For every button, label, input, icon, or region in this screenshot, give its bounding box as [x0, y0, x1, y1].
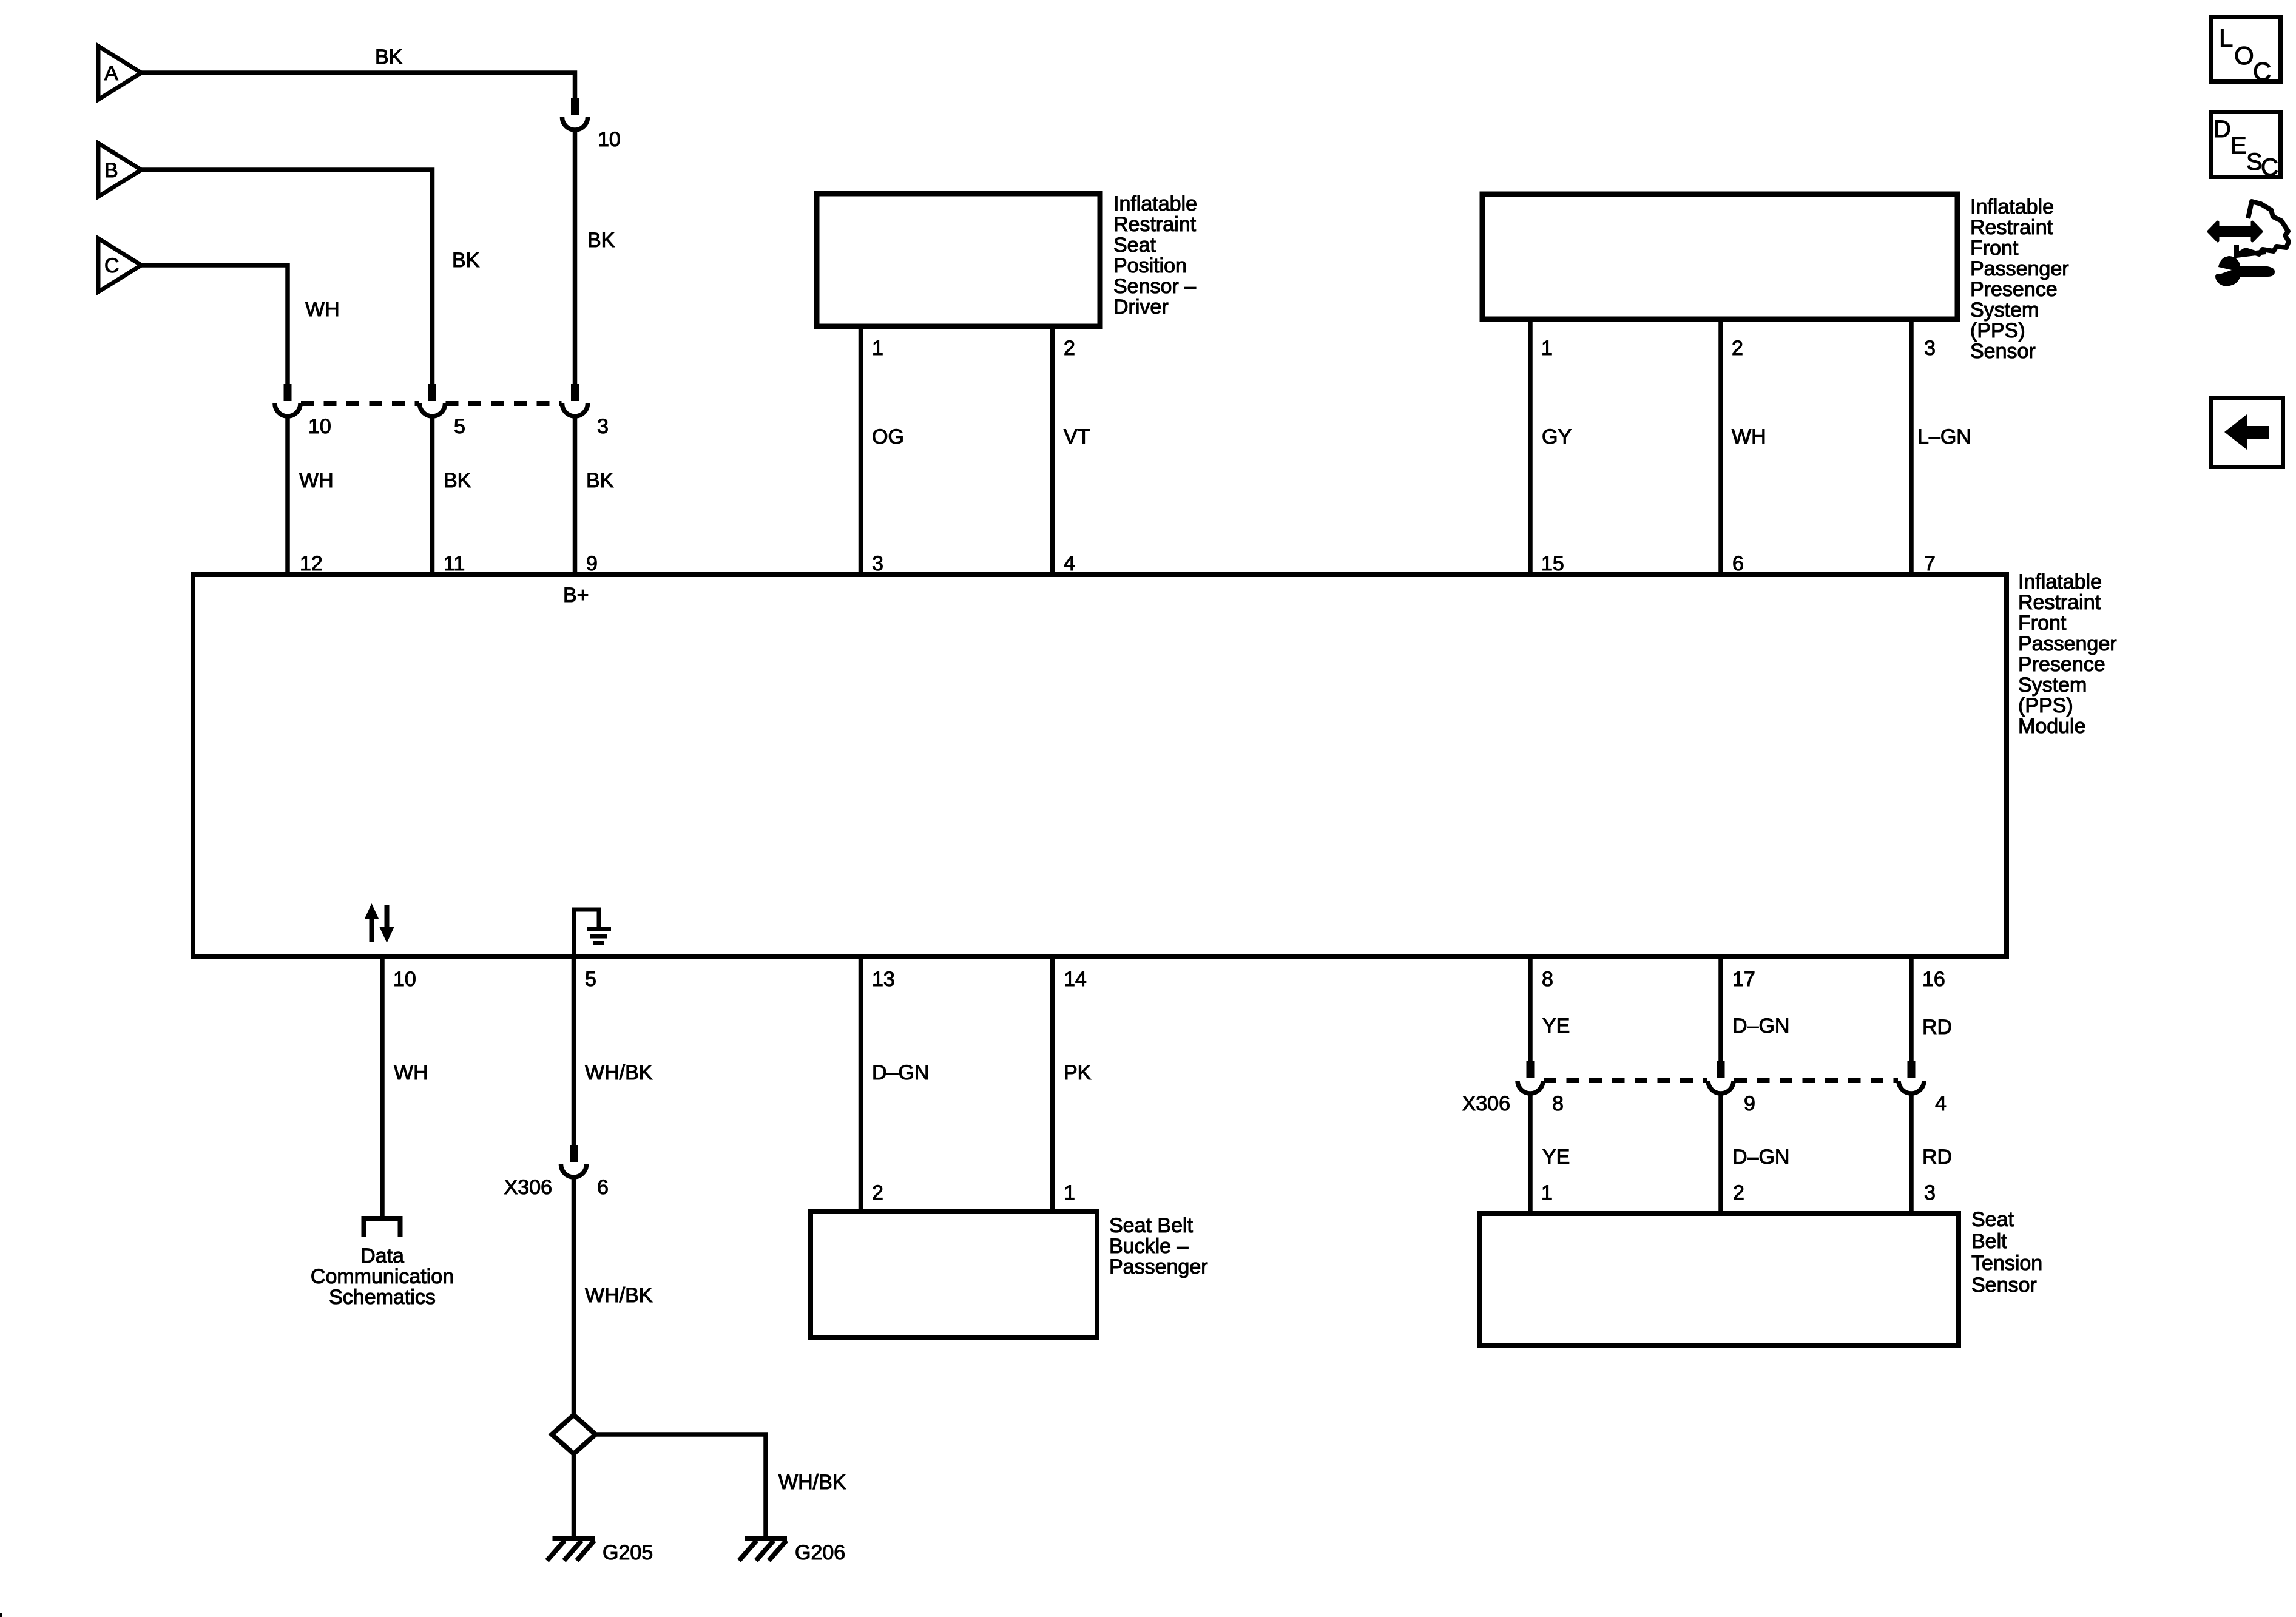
wire PPS pin1 GY	[1528, 319, 1533, 575]
svg-text:2: 2	[1064, 337, 1075, 360]
connector splice row pin 3	[562, 384, 588, 416]
svg-text:11: 11	[444, 552, 465, 575]
splice diamond S-junction	[552, 1415, 596, 1454]
box: Inflatable Restraint Front Passenger Presence System (PPS) Sensor	[1482, 194, 1957, 319]
svg-text:WH: WH	[1732, 425, 1766, 448]
page corner mark	[0, 1613, 2, 1617]
svg-text:3: 3	[597, 415, 609, 438]
connector X306 pin 4	[1899, 1061, 1924, 1093]
wire module pin10 WH	[380, 957, 385, 1217]
svg-text:3: 3	[1924, 1181, 1936, 1204]
wire YE to tension 1	[1528, 1093, 1533, 1214]
wire module pin5 WH/BK upper	[572, 957, 576, 1146]
svg-text:X306: X306	[504, 1176, 552, 1199]
wire sensor pin2 VT	[1050, 329, 1055, 575]
svg-text:B: B	[104, 159, 118, 182]
svg-text:C: C	[2261, 154, 2278, 181]
svg-text:8: 8	[1542, 968, 1553, 991]
wire splice to G205	[572, 1454, 576, 1538]
wire BK to module pin 9	[573, 416, 578, 575]
svg-text:A: A	[104, 62, 118, 85]
svg-text:10: 10	[308, 415, 331, 438]
connector arrow A	[98, 46, 141, 100]
svg-text:WH: WH	[394, 1061, 428, 1084]
svg-text:6: 6	[597, 1176, 609, 1199]
svg-text:O: O	[2234, 41, 2254, 70]
wire D-GN to tension 2	[1718, 1093, 1723, 1214]
svg-text:13: 13	[872, 968, 895, 991]
ground G206	[739, 1538, 787, 1561]
svg-text:1: 1	[1064, 1181, 1075, 1204]
chassis ground symbol (module pin 5)	[574, 910, 612, 956]
svg-text:5: 5	[454, 415, 465, 438]
connector X306 pin 6	[561, 1145, 587, 1177]
box: Seat Belt Buckle - Passenger	[811, 1211, 1097, 1337]
svg-text:16: 16	[1922, 968, 1945, 991]
svg-text:5: 5	[585, 968, 596, 991]
data link connector (to other schematics)	[364, 1218, 400, 1237]
icon DESC button	[2211, 112, 2281, 181]
svg-text:14: 14	[1064, 968, 1087, 991]
svg-text:C: C	[2253, 57, 2271, 86]
wire WH/BK to splice	[572, 1177, 576, 1416]
wire sensor pin1 OG	[859, 329, 863, 575]
svg-text:WH: WH	[305, 298, 340, 321]
box: Seat Belt Tension Sensor	[1480, 1214, 1959, 1346]
svg-text:15: 15	[1541, 552, 1564, 575]
wire module pin8 YE	[1528, 957, 1533, 1062]
box: Inflatable Restraint Seat Position Sensor - Driver	[817, 194, 1100, 326]
dashed jumper X306 row	[1544, 1078, 1898, 1083]
svg-text:WH/BK: WH/BK	[585, 1061, 653, 1084]
svg-text:RD: RD	[1922, 1146, 1952, 1169]
svg-text:InflatableRestraintFrontPassen: InflatableRestraintFrontPassengerPresenc…	[2018, 570, 2117, 738]
svg-text:BK: BK	[587, 229, 615, 252]
svg-text:6: 6	[1732, 552, 1744, 575]
svg-text:1: 1	[1541, 1181, 1553, 1204]
wire C WH horizontal+down	[141, 265, 288, 384]
svg-text:YE: YE	[1542, 1146, 1570, 1169]
connector arrow B	[98, 143, 141, 197]
svg-text:S: S	[2246, 149, 2263, 175]
connector inline 10 on wire A	[562, 98, 588, 130]
wire module pin14 PK	[1050, 957, 1055, 1212]
svg-text:2: 2	[1732, 337, 1743, 360]
ground G205	[547, 1538, 595, 1561]
svg-text:10: 10	[393, 968, 416, 991]
icon back-arrow button	[2211, 399, 2283, 467]
connector X306 pin 9	[1708, 1061, 1734, 1093]
svg-text:L–GN: L–GN	[1917, 425, 1971, 448]
svg-text:RD: RD	[1922, 1016, 1952, 1039]
svg-text:BK: BK	[452, 249, 480, 272]
svg-text:E: E	[2230, 132, 2247, 159]
svg-text:2: 2	[872, 1181, 883, 1204]
svg-text:L: L	[2219, 24, 2233, 52]
svg-text:SeatBeltTensionSensor: SeatBeltTensionSensor	[1971, 1208, 2042, 1297]
svg-text:9: 9	[1744, 1092, 1755, 1115]
svg-text:4: 4	[1064, 552, 1075, 575]
svg-text:WH/BK: WH/BK	[585, 1284, 653, 1307]
svg-text:D: D	[2213, 116, 2231, 143]
wire WH to module pin 12	[285, 416, 290, 575]
svg-text:PK: PK	[1064, 1061, 1092, 1084]
svg-text:X306: X306	[1462, 1092, 1510, 1115]
svg-text:3: 3	[872, 552, 883, 575]
connector X306 pin 8	[1518, 1061, 1543, 1093]
bidirectional data arrows (module pin 10)	[365, 903, 394, 943]
svg-text:B+: B+	[563, 584, 589, 607]
svg-text:InflatableRestraintFrontPassen: InflatableRestraintFrontPassengerPresenc…	[1970, 195, 2069, 363]
svg-text:D–GN: D–GN	[1732, 1146, 1789, 1169]
svg-text:G206: G206	[795, 1541, 845, 1564]
wire module pin17 D-GN	[1718, 957, 1723, 1062]
wire PPS pin2 WH	[1718, 319, 1723, 575]
svg-text:17: 17	[1732, 968, 1755, 991]
svg-text:BK: BK	[375, 46, 403, 69]
svg-text:C: C	[104, 254, 120, 277]
svg-text:GY: GY	[1542, 425, 1572, 448]
wire B BK horizontal+down	[141, 170, 433, 384]
svg-text:InflatableRestraintSeatPositio: InflatableRestraintSeatPositionSensor –D…	[1113, 192, 1197, 319]
svg-text:G205: G205	[603, 1541, 653, 1564]
wire module pin13 D-GN	[859, 957, 863, 1212]
svg-text:DataCommunicationSchematics: DataCommunicationSchematics	[311, 1244, 454, 1309]
wire splice branch to G206	[595, 1434, 766, 1538]
connector splice row pin 5	[420, 384, 445, 416]
icon connector-repair (arrow + wrench)	[2209, 201, 2289, 286]
wire A BK horizontal+down	[141, 73, 575, 98]
svg-text:10: 10	[598, 128, 621, 151]
svg-text:8: 8	[1552, 1092, 1564, 1115]
svg-text:WH: WH	[299, 469, 334, 492]
wire BK to module pin 11	[430, 416, 435, 575]
svg-text:OG: OG	[872, 425, 904, 448]
dashed jumper between splice connectors	[301, 401, 562, 406]
icon LOC button	[2211, 17, 2281, 86]
wire A BK vertical to splice row	[573, 130, 578, 384]
svg-text:2: 2	[1733, 1181, 1744, 1204]
svg-text:4: 4	[1935, 1092, 1947, 1115]
svg-text:WH/BK: WH/BK	[778, 1471, 846, 1494]
svg-text:12: 12	[300, 552, 323, 575]
svg-text:1: 1	[1541, 337, 1553, 360]
svg-text:D–GN: D–GN	[1732, 1014, 1789, 1038]
svg-text:BK: BK	[444, 469, 471, 492]
box: Inflatable Restraint Front Passenger Presence System (PPS) Module	[193, 575, 2007, 956]
svg-text:3: 3	[1924, 337, 1936, 360]
wire module pin16 RD	[1909, 957, 1914, 1062]
svg-text:YE: YE	[1542, 1014, 1570, 1038]
connector arrow C	[98, 238, 141, 292]
connector splice row pin 10	[275, 384, 300, 416]
svg-text:Seat BeltBuckle –Passenger: Seat BeltBuckle –Passenger	[1109, 1214, 1208, 1278]
svg-text:1: 1	[872, 337, 883, 360]
svg-text:BK: BK	[586, 469, 614, 492]
wire RD to tension 3	[1909, 1093, 1914, 1214]
svg-text:D–GN: D–GN	[872, 1061, 929, 1084]
svg-text:VT: VT	[1064, 425, 1090, 448]
wire PPS pin3 L-GN	[1909, 319, 1914, 575]
svg-text:9: 9	[586, 552, 598, 575]
svg-text:7: 7	[1924, 552, 1936, 575]
